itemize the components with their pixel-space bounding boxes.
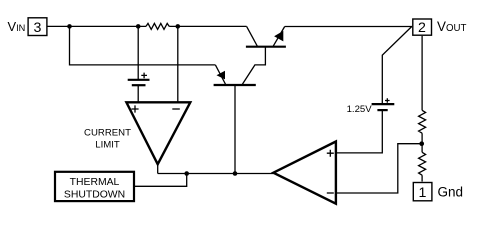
svg-text:SHUTDOWN: SHUTDOWN xyxy=(64,190,125,201)
svg-text:VOUT: VOUT xyxy=(437,19,466,34)
svg-text:Gnd: Gnd xyxy=(438,185,464,200)
svg-text:2: 2 xyxy=(418,20,426,36)
wire: VOUT pin down to divider xyxy=(421,36,423,110)
wire: battery V1 to current limit + input xyxy=(137,85,139,102)
svg-text:LIMIT: LIMIT xyxy=(95,139,120,150)
battery VREF plus sign xyxy=(385,98,390,103)
wire: pin 3 to input rail xyxy=(48,25,147,27)
battery VREF 1.25V xyxy=(372,104,395,110)
transistor Q2 (pass) collector lead xyxy=(247,26,258,46)
transistor Q1 (driver) base bar xyxy=(214,84,256,86)
node: Q1 base junction xyxy=(233,171,238,176)
resistor R3 (divider lower) xyxy=(419,152,426,175)
wire: sense resistor right to current limit - input xyxy=(177,26,179,102)
transistor Q1 emitter arrow xyxy=(217,71,226,80)
thermal shutdown block xyxy=(55,172,134,201)
transistor Q2 base bar xyxy=(246,46,286,48)
wire: divider to Gnd pin xyxy=(421,175,423,181)
op-amp U2 minus input sign xyxy=(327,192,334,194)
label VIN xyxy=(8,19,26,34)
op-amp U1 minus input sign xyxy=(172,108,180,110)
svg-text:1.25V: 1.25V xyxy=(347,104,373,115)
wire: Q2 emitter to VOUT pin xyxy=(285,26,412,28)
label 1.25V xyxy=(347,104,373,115)
op-amp U2 plus input sign xyxy=(327,150,334,157)
op-amp U1 plus input sign xyxy=(131,105,138,112)
svg-text:1: 1 xyxy=(419,185,427,201)
node: input junction A xyxy=(67,24,72,29)
wire: sense junction to battery V1 xyxy=(137,26,139,79)
resistor R2 (divider upper) xyxy=(419,110,426,133)
wire: U2 - input to divider tap xyxy=(336,144,422,193)
pin box 2 (output) xyxy=(413,19,432,36)
wire: thermal shutdown output to bottom rail xyxy=(134,174,187,187)
pin box 1 (ground) xyxy=(413,183,432,201)
wire: Q1 base to bottom rail xyxy=(234,85,236,174)
battery V1 plus sign xyxy=(141,73,147,79)
node: thermal shutdown junction xyxy=(184,171,189,176)
transistor Q2 emitter arrow xyxy=(274,31,283,42)
divider tap arrow xyxy=(419,141,424,146)
op-amp U1 (current limit) xyxy=(126,102,190,164)
label VOUT xyxy=(437,19,466,34)
label CURRENT LIMIT xyxy=(84,128,131,151)
node: sense resistor left junction xyxy=(136,24,141,29)
svg-text:3: 3 xyxy=(34,20,42,36)
wire: U2 + input to reference battery xyxy=(336,110,382,153)
wire: battery VREF top to VOUT rail xyxy=(382,26,412,104)
wire: bottom rail to output amp xyxy=(158,173,274,175)
wire: U1 output to bottom rail xyxy=(157,163,159,174)
battery V1 (current limit offset) xyxy=(128,80,150,85)
wire: divider middle segment xyxy=(421,133,423,152)
svg-text:CURRENT: CURRENT xyxy=(84,128,131,139)
wire: resistor to Q2 collector xyxy=(169,25,246,27)
pin box 3 (input) xyxy=(28,18,47,36)
svg-text:VIN: VIN xyxy=(8,19,26,34)
wire: Q2 base to Q1 collector xyxy=(242,47,266,85)
svg-text:THERMAL: THERMAL xyxy=(70,177,120,188)
transistor Q1 emitter lead xyxy=(215,65,226,85)
transistor Q2 emitter lead xyxy=(273,27,285,47)
op-amp U2 (error amplifier) xyxy=(273,142,336,204)
node: sense resistor right junction xyxy=(176,24,181,29)
wire: input junction A to Q1 emitter xyxy=(70,26,216,65)
label Gnd xyxy=(438,185,464,200)
resistor R1 (current sense, top rail) xyxy=(146,23,169,29)
